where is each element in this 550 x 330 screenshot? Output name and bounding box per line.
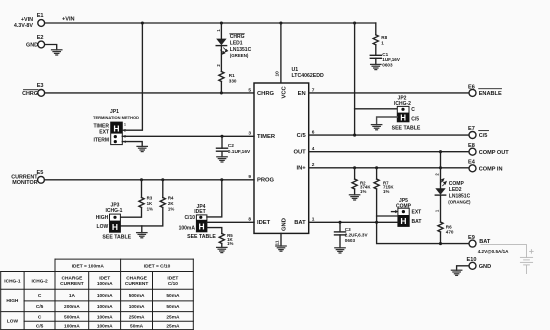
svg-text:0603: 0603 <box>345 238 356 243</box>
svg-text:SEE TABLE: SEE TABLE <box>392 126 421 132</box>
ground C3 <box>335 248 345 253</box>
svg-text:0603: 0603 <box>382 62 393 67</box>
wire C/5 net <box>309 134 469 136</box>
svg-text:E10: E10 <box>467 257 477 263</box>
svg-text:R8: R8 <box>381 35 387 40</box>
svg-text:C/10: C/10 <box>184 215 195 221</box>
svg-text:H: H <box>400 216 406 226</box>
svg-text:IDET: IDET <box>167 276 178 282</box>
svg-text:E6: E6 <box>468 84 475 90</box>
svg-text:BAT: BAT <box>479 239 491 245</box>
svg-text:1: 1 <box>216 29 221 32</box>
ground C2 <box>217 157 227 162</box>
svg-text:C2: C2 <box>228 143 234 149</box>
svg-text:R4: R4 <box>168 196 174 201</box>
svg-text:LOW: LOW <box>7 318 19 324</box>
svg-text:ENABLE: ENABLE <box>479 91 502 97</box>
svg-text:CURRENT: CURRENT <box>60 281 84 287</box>
svg-text:E8: E8 <box>468 143 475 149</box>
resistor R1 330 <box>219 72 237 93</box>
svg-text:GND: GND <box>479 264 491 270</box>
terminal E9 <box>468 235 509 254</box>
svg-text:LTC4062EDD: LTC4062EDD <box>292 73 324 79</box>
wire GND pin to ground <box>280 233 282 246</box>
svg-text:(GREEN): (GREEN) <box>230 53 249 58</box>
svg-text:IDET: IDET <box>194 209 205 215</box>
node junction LED2/OUT <box>439 150 442 153</box>
svg-text:TIMER: TIMER <box>257 134 276 140</box>
battery B1 (faint) <box>481 245 533 274</box>
wire JP5 EXT stub <box>392 211 397 213</box>
ground JP1 <box>137 146 147 151</box>
ground U1 <box>276 246 286 251</box>
svg-text:HIGH: HIGH <box>96 215 109 221</box>
svg-text:CHRG: CHRG <box>22 91 38 97</box>
svg-text:10: 10 <box>274 71 280 77</box>
capacitor C2 0.1uF 16V <box>217 136 251 157</box>
svg-text:LOW: LOW <box>97 224 109 230</box>
wire BAT net <box>309 221 398 223</box>
svg-text:BAT: BAT <box>294 220 306 226</box>
wire JP2 middle row to ground <box>377 117 398 125</box>
svg-text:C/5: C/5 <box>36 304 44 310</box>
svg-text:C3: C3 <box>345 227 351 232</box>
svg-text:1: 1 <box>435 209 440 212</box>
wire JP3 ground stem <box>141 226 143 233</box>
svg-text:1: 1 <box>124 122 126 126</box>
op-amp U1 LTC4062EDD IC body <box>254 67 324 233</box>
svg-text:250mA: 250mA <box>129 314 145 320</box>
resistor R2 374K 1% <box>352 168 371 195</box>
svg-text:CHARGE: CHARGE <box>62 276 84 282</box>
node junction C2/TIMER <box>220 135 223 138</box>
svg-text:ICHG-1: ICHG-1 <box>106 208 123 214</box>
node junction JP2 riser/+VIN <box>353 21 356 24</box>
svg-text:2: 2 <box>435 173 440 176</box>
svg-text:100mA: 100mA <box>64 323 80 329</box>
svg-text:R3: R3 <box>147 196 153 201</box>
wire JP1 EXT row to +VIN riser <box>122 23 142 130</box>
svg-text:11: 11 <box>274 240 280 245</box>
svg-text:470: 470 <box>446 230 454 235</box>
svg-text:CURRENT: CURRENT <box>125 281 149 287</box>
node junction R7/IN+ <box>375 166 378 169</box>
svg-text:0.1UF,16V: 0.1UF,16V <box>228 149 251 155</box>
terminal E1 <box>14 13 45 29</box>
svg-text:+VIN: +VIN <box>62 16 75 22</box>
svg-text:HIGH: HIGH <box>6 298 19 304</box>
wire IDET net <box>207 221 254 223</box>
wire JP1 ITERM to ground <box>122 142 142 147</box>
svg-text:EN: EN <box>298 91 306 97</box>
terminal E2 <box>26 35 45 49</box>
terminal E6 <box>468 84 502 97</box>
wire JP4 100mA row to R5 <box>207 228 222 234</box>
svg-text:E4: E4 <box>468 160 476 166</box>
terminal E10 <box>467 257 492 270</box>
svg-text:5: 5 <box>248 87 251 93</box>
svg-text:C/5: C/5 <box>411 117 419 123</box>
ground JP2 <box>371 125 381 130</box>
wire PROG net <box>45 179 255 181</box>
svg-text:E2: E2 <box>37 35 44 41</box>
svg-text:PROG: PROG <box>257 178 275 184</box>
svg-text:1%: 1% <box>168 206 174 211</box>
svg-text:100mA: 100mA <box>129 304 145 310</box>
svg-text:VCC: VCC <box>282 85 288 98</box>
svg-text:25mA: 25mA <box>166 314 180 320</box>
terminal E4 <box>468 160 503 173</box>
node junction R2/IN+ <box>353 166 356 169</box>
ground E10 <box>451 270 461 275</box>
svg-text:COMP: COMP <box>449 181 465 187</box>
svg-text:1: 1 <box>381 41 384 46</box>
node junction C3/BAT <box>338 221 341 224</box>
svg-text:C/10: C/10 <box>168 281 178 287</box>
ground JP3 <box>137 233 147 238</box>
svg-text:100mA: 100mA <box>97 323 113 329</box>
node junction JP4/PROG <box>220 178 223 181</box>
wire IN+ net <box>309 167 469 169</box>
svg-text:1%: 1% <box>227 241 233 246</box>
svg-text:IDET: IDET <box>257 220 271 226</box>
capacitor C3 2.2uF 6.3V 0603 <box>335 222 369 248</box>
jumper JP3 ICHG-1 <box>96 202 132 240</box>
svg-text:1%: 1% <box>383 189 389 194</box>
svg-text:EXT: EXT <box>99 130 109 136</box>
svg-text:CHARGE: CHARGE <box>126 276 148 282</box>
svg-text:1%: 1% <box>360 189 366 194</box>
ground C1 <box>371 64 381 69</box>
node junction R7 riser/BAT <box>375 221 378 224</box>
svg-text:R1: R1 <box>229 73 235 78</box>
terminal E8 <box>468 143 509 156</box>
svg-text:500mA: 500mA <box>129 293 145 299</box>
ground R2 <box>349 195 359 200</box>
svg-text:GND: GND <box>26 43 38 49</box>
svg-text:IDET: IDET <box>99 276 110 282</box>
wire TIMER net <box>122 135 254 137</box>
svg-text:50mA: 50mA <box>166 293 180 299</box>
terminal E5 <box>11 170 44 186</box>
svg-text:ICHG-1: ICHG-1 <box>4 278 21 284</box>
wire EN net <box>309 92 469 94</box>
svg-text:LN1351C: LN1351C <box>230 47 252 53</box>
svg-text:TIMER: TIMER <box>93 123 109 129</box>
svg-text:E9: E9 <box>468 235 475 241</box>
svg-text:ICHG-2: ICHG-2 <box>31 278 48 284</box>
svg-text:GND: GND <box>282 218 288 231</box>
svg-text:2K: 2K <box>168 201 174 206</box>
svg-text:C: C <box>411 107 415 113</box>
LED D2 COMP LED2 LN1851C <box>435 152 471 222</box>
svg-text:SEE TABLE: SEE TABLE <box>102 235 131 241</box>
svg-text:2.2UF,6.3V: 2.2UF,6.3V <box>345 232 369 237</box>
svg-text:100mA: 100mA <box>97 281 113 287</box>
node junction riser/C5 <box>353 134 356 137</box>
svg-text:IN+: IN+ <box>297 166 307 172</box>
svg-text:H: H <box>199 221 205 231</box>
node junction R6/E9 wire <box>439 242 442 245</box>
svg-text:100mA: 100mA <box>97 314 113 320</box>
svg-text:50mA: 50mA <box>130 323 144 329</box>
svg-text:COMP IN: COMP IN <box>479 167 503 173</box>
svg-text:BAT: BAT <box>412 219 422 225</box>
wire JP2 C row <box>355 108 398 110</box>
terminal E3 <box>22 83 44 97</box>
svg-text:4.3V-8V: 4.3V-8V <box>14 23 34 29</box>
svg-text:1%: 1% <box>147 206 153 211</box>
wire E10 to ground <box>457 266 469 270</box>
node junction R1/CHRG <box>220 91 223 94</box>
svg-text:C: C <box>38 314 42 320</box>
resistor R6 470 <box>438 222 454 244</box>
svg-text:100mA: 100mA <box>179 225 196 231</box>
resistor R7 715K 1% <box>374 168 469 244</box>
svg-text:330: 330 <box>229 79 237 84</box>
svg-text:4.2V@0.5A/1A: 4.2V@0.5A/1A <box>478 249 509 254</box>
jumper JP1 TERMINATION METHOD <box>93 109 139 145</box>
node junction R4/PROG <box>161 178 164 181</box>
node junction R3/PROG <box>140 178 143 181</box>
jumper JP4 IDET <box>179 204 217 240</box>
svg-text:CHRG: CHRG <box>257 91 275 97</box>
jumper JP2 ICHG-2 <box>392 96 421 132</box>
svg-text:MONITOR: MONITOR <box>12 180 37 186</box>
svg-text:C/5: C/5 <box>36 323 44 329</box>
wire JP5 middle row <box>377 215 398 217</box>
svg-text:100mA: 100mA <box>97 304 113 310</box>
svg-text:E3: E3 <box>37 83 44 89</box>
resistor R8 1 <box>373 23 387 55</box>
svg-text:3: 3 <box>248 130 251 136</box>
svg-text:CHRG: CHRG <box>230 34 245 40</box>
svg-text:IDET = C/10: IDET = C/10 <box>144 263 171 269</box>
svg-text:TERMINATION METHOD: TERMINATION METHOD <box>93 115 139 120</box>
wire JP2 riser <box>354 23 356 135</box>
wire E2 to ground <box>45 45 57 50</box>
node junction LED2/IN+ <box>439 166 442 169</box>
svg-text:E1: E1 <box>37 13 44 19</box>
node junction riser/+VIN <box>141 21 144 24</box>
svg-text:SEE TABLE: SEE TABLE <box>187 234 216 240</box>
wire OUT net <box>309 151 469 153</box>
svg-text:100mA: 100mA <box>97 293 113 299</box>
node junction LED1/+VIN <box>220 21 223 24</box>
wire JP4 C/10 row to PROG <box>207 180 222 217</box>
svg-text:ITERM: ITERM <box>93 138 109 144</box>
wire CHRG net <box>45 92 254 94</box>
capacitor C1 1uF 16V 0603 <box>370 52 401 67</box>
svg-text:H: H <box>400 113 406 122</box>
svg-text:1K: 1K <box>147 201 153 206</box>
wire +VIN bus <box>45 16 376 23</box>
ground R5 <box>217 247 227 252</box>
svg-text:(ORANGE): (ORANGE) <box>448 200 471 205</box>
svg-text:EXT: EXT <box>412 210 422 216</box>
resistor R4 2K 1% <box>120 180 174 226</box>
svg-text:H: H <box>112 222 118 232</box>
svg-text:2: 2 <box>216 64 221 67</box>
svg-text:C: C <box>38 293 42 299</box>
svg-text:LED2: LED2 <box>449 187 462 193</box>
svg-text:50mA: 50mA <box>166 304 180 310</box>
svg-text:H: H <box>113 123 119 133</box>
table lookup ICHG <box>1 259 194 330</box>
LED D1 CHRG LED1 LN1351C <box>216 23 252 72</box>
wire VCC riser <box>280 23 282 83</box>
svg-text:C/5: C/5 <box>479 133 488 139</box>
svg-text:C/5: C/5 <box>297 133 307 139</box>
svg-text:OUT: OUT <box>293 150 306 156</box>
svg-text:500mA: 500mA <box>64 314 80 320</box>
svg-text:1A: 1A <box>69 293 76 299</box>
svg-text:25mA: 25mA <box>166 323 180 329</box>
svg-text:COMP OUT: COMP OUT <box>479 150 510 156</box>
svg-text:LED1: LED1 <box>230 40 243 46</box>
ground E2 <box>52 50 62 55</box>
resistor R3 1K 1% <box>120 180 153 217</box>
resistor R5 1K 1% <box>219 233 233 247</box>
svg-text:200mA: 200mA <box>64 304 80 310</box>
terminal E7 <box>468 126 489 139</box>
node junction VCC/+VIN <box>279 21 282 24</box>
svg-text:IDET = 100mA: IDET = 100mA <box>72 263 105 269</box>
svg-text:E7: E7 <box>468 126 475 132</box>
jumper JP5 COMP <box>396 198 421 226</box>
